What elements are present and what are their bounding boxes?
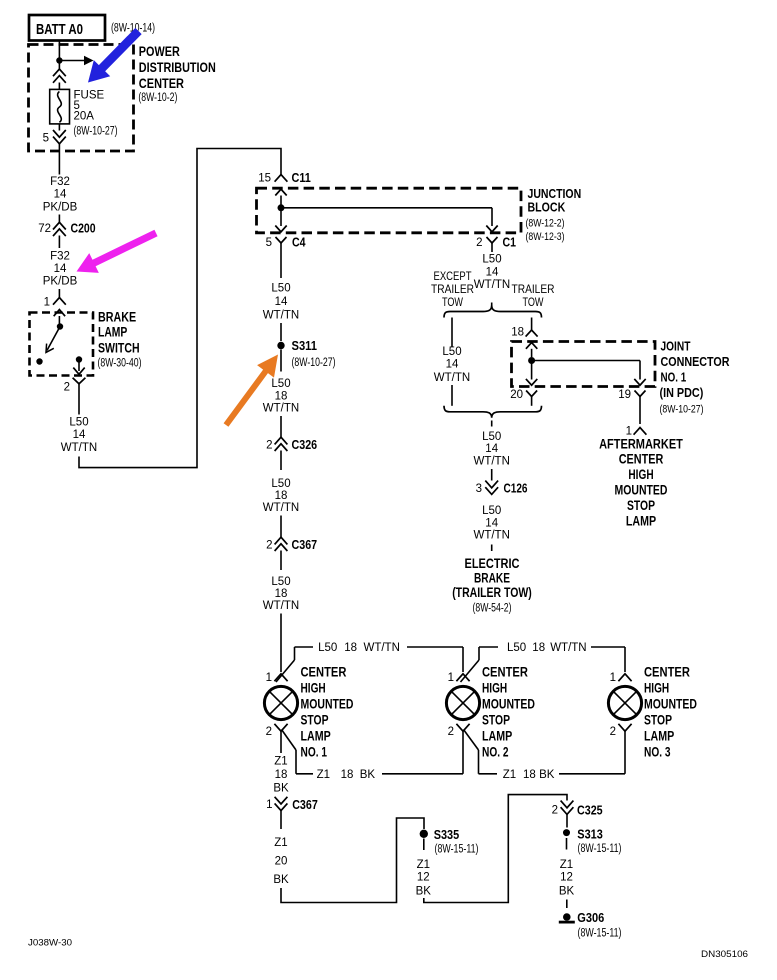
wire Z1 18 BK lamp2 to lamp3	[464, 730, 626, 774]
svg-text:(8W-30-40): (8W-30-40)	[98, 357, 142, 369]
svg-text:2: 2	[266, 539, 272, 551]
svg-text:LAMP: LAMP	[626, 513, 656, 528]
svg-text:STOP: STOP	[627, 498, 655, 513]
svg-text:C126: C126	[504, 481, 528, 496]
svg-text:18: 18	[344, 642, 357, 654]
svg-text:S313: S313	[577, 827, 603, 842]
power distribution center box	[29, 45, 134, 152]
connector chevrons PDC output (down)	[53, 130, 66, 144]
svg-text:BK: BK	[559, 886, 575, 898]
svg-text:PK/DB: PK/DB	[43, 201, 78, 213]
connector C200 pin 72	[38, 221, 95, 237]
switch output wire arrow	[73, 362, 84, 374]
svg-text:14: 14	[275, 296, 288, 308]
svg-text:L50: L50	[271, 282, 290, 294]
svg-text:14: 14	[446, 359, 459, 371]
svg-text:20: 20	[275, 855, 288, 867]
svg-text:WT/TN: WT/TN	[474, 279, 510, 291]
svg-text:WT/TN: WT/TN	[473, 456, 509, 468]
fuse FUSE 5 20A	[50, 89, 70, 124]
fuse value label	[74, 90, 118, 138]
svg-text:NO. 1: NO. 1	[301, 745, 328, 760]
svg-text:L50: L50	[442, 346, 461, 358]
svg-text:WT/TN: WT/TN	[61, 442, 97, 454]
svg-text:1: 1	[44, 297, 50, 309]
svg-text:C4: C4	[292, 235, 306, 250]
wire to splice S311	[280, 323, 282, 341]
wire Z1 18 BK lamp1 to lamp2	[282, 730, 464, 774]
pin 1 brake lamp switch	[44, 297, 66, 309]
svg-text:DISTRIBUTION: DISTRIBUTION	[139, 60, 216, 75]
svg-text:14: 14	[485, 517, 498, 529]
svg-text:3: 3	[476, 483, 482, 495]
svg-text:NO. 3: NO. 3	[644, 745, 671, 760]
junction block label	[526, 187, 582, 243]
joint connector no.1 box	[512, 342, 656, 387]
svg-text:CENTER: CENTER	[301, 665, 347, 680]
svg-text:LAMP: LAMP	[301, 729, 331, 744]
svg-text:MOUNTED: MOUNTED	[482, 697, 535, 712]
reference label (8W-10-14)	[111, 23, 155, 35]
svg-text:2: 2	[64, 382, 70, 394]
brake lamp switch input arrowhead	[54, 310, 65, 317]
pin 18 joint connector	[511, 327, 537, 339]
wire into C200	[58, 215, 60, 223]
svg-text:MOUNTED: MOUNTED	[644, 697, 697, 712]
connector C126 pin 3	[476, 481, 528, 496]
wire connector to fuse	[58, 83, 60, 90]
wire label F32 14 PK/DB (lower)	[43, 251, 78, 288]
svg-text:L50: L50	[271, 576, 290, 588]
wire node to pin 19	[532, 361, 646, 386]
svg-text:CONNECTOR: CONNECTOR	[661, 354, 731, 369]
svg-text:20A: 20A	[74, 111, 95, 123]
wire switch output	[78, 389, 80, 415]
lamp no.1 label	[301, 665, 354, 760]
wire stub above brace	[491, 303, 493, 309]
svg-text:L50: L50	[271, 478, 290, 490]
svg-text:(TRAILER TOW): (TRAILER TOW)	[452, 585, 532, 600]
svg-text:C200: C200	[71, 221, 96, 236]
wire S313 down stub	[566, 838, 568, 850]
label TRAILER TOW	[512, 284, 555, 309]
svg-text:18: 18	[275, 769, 288, 781]
svg-text:J038W-30: J038W-30	[28, 938, 72, 948]
wire label L50 14 WT/TN (below C1)	[474, 254, 510, 291]
svg-text:NO. 1: NO. 1	[661, 370, 687, 385]
svg-text:WT/TN: WT/TN	[473, 530, 509, 542]
connector C325 pin 2	[552, 801, 603, 818]
switch arm	[46, 327, 60, 353]
svg-text:5: 5	[43, 133, 49, 145]
wire label Z1 18 BK (lamp1 drop)	[273, 756, 289, 795]
svg-text:12: 12	[560, 872, 573, 884]
connector chevrons PDC feed (up)	[53, 69, 66, 83]
wire label F32 14 PK/DB (upper)	[43, 176, 78, 213]
wire label Z1 12 BK (below S335)	[416, 859, 432, 898]
svg-text:15: 15	[258, 173, 271, 185]
wire label L50 14 WT/TN (above C126)	[473, 431, 509, 468]
svg-text:2: 2	[610, 726, 616, 738]
svg-text:WT/TN: WT/TN	[263, 600, 299, 612]
diagram id J038W-30	[28, 938, 72, 948]
pin 2 connector C1	[476, 235, 516, 253]
aftermarket lamp label	[599, 436, 683, 528]
wire node to C4	[275, 208, 286, 232]
wire into C367 upper	[280, 516, 282, 538]
svg-text:LAMP: LAMP	[644, 729, 674, 744]
svg-text:NO. 2: NO. 2	[482, 745, 509, 760]
connector C367 pin 2	[266, 537, 317, 552]
svg-text:F32: F32	[50, 176, 70, 188]
svg-text:TOW: TOW	[523, 297, 544, 309]
svg-text:BATT A0: BATT A0	[36, 21, 83, 38]
battery feed BATT A0	[29, 15, 105, 41]
connector C367 pin 1	[266, 797, 318, 812]
svg-text:19: 19	[618, 389, 631, 401]
svg-text:Z1: Z1	[417, 859, 430, 871]
svg-text:L50: L50	[318, 642, 337, 654]
wire label Z1 18 BK (lamp2-lamp3)	[503, 769, 555, 781]
svg-text:14: 14	[486, 267, 499, 279]
svg-text:18: 18	[511, 327, 524, 339]
wire PDC output F32	[58, 144, 60, 175]
junction block box	[257, 188, 522, 233]
svg-text:14: 14	[54, 189, 67, 201]
svg-text:S311: S311	[292, 338, 318, 353]
svg-text:HIGH: HIGH	[628, 467, 653, 482]
svg-text:(8W-12-2): (8W-12-2)	[526, 218, 565, 230]
svg-text:BRAKE: BRAKE	[474, 570, 510, 585]
svg-text:18: 18	[523, 769, 536, 781]
svg-text:TRAILER: TRAILER	[431, 284, 474, 296]
blue callout arrow	[80, 23, 147, 91]
svg-text:S335: S335	[434, 827, 460, 842]
svg-text:2: 2	[552, 805, 558, 817]
svg-text:L50: L50	[482, 505, 501, 517]
svg-text:CENTER: CENTER	[619, 452, 664, 467]
wire C367 down	[280, 551, 282, 571]
switch common contact	[57, 323, 63, 329]
wire C367 down	[280, 811, 282, 829]
svg-text:STOP: STOP	[301, 713, 329, 728]
wire label L50 14 WT/TN (switch output)	[61, 417, 97, 455]
wire to lamp no.1 pin 1	[280, 614, 282, 673]
wire label L50 14 WT/TN (below C4)	[263, 282, 299, 321]
svg-text:18: 18	[275, 490, 288, 502]
svg-text:CENTER: CENTER	[139, 76, 184, 91]
svg-text:WT/TN: WT/TN	[263, 502, 299, 514]
svg-text:Z1: Z1	[503, 769, 516, 781]
svg-text:WT/TN: WT/TN	[434, 372, 470, 384]
svg-text:(8W-10-27): (8W-10-27)	[74, 126, 118, 138]
label EXCEPT TRAILER TOW	[431, 271, 474, 309]
svg-text:LAMP: LAMP	[98, 325, 127, 340]
orange callout arrow	[218, 348, 287, 431]
svg-text:G306: G306	[577, 910, 604, 925]
svg-text:1: 1	[266, 799, 272, 811]
wire pin18 to node	[531, 349, 533, 357]
svg-text:C325: C325	[577, 803, 603, 818]
wire C200 to F32 label	[58, 236, 60, 249]
wire C326 down	[280, 451, 282, 471]
svg-text:Z1: Z1	[274, 756, 287, 768]
wire into C126	[491, 469, 493, 481]
wire left branch (except trailer tow)	[451, 318, 453, 406]
svg-text:(8W-15-11): (8W-15-11)	[578, 843, 622, 855]
brake lamp switch box	[30, 313, 94, 376]
svg-text:BK: BK	[539, 769, 555, 781]
wire S311 down	[280, 350, 282, 372]
switch output contact	[76, 356, 82, 362]
wire node to connector	[58, 61, 60, 70]
pin 2 brake lamp switch	[64, 378, 86, 394]
wire label L50 14 WT/TN (left branch)	[434, 346, 470, 384]
svg-text:2: 2	[476, 237, 482, 249]
svg-text:Z1: Z1	[560, 859, 573, 871]
svg-text:SWITCH: SWITCH	[98, 340, 140, 355]
svg-text:TRAILER: TRAILER	[512, 284, 555, 296]
wire stub below brace	[491, 421, 493, 427]
svg-text:2: 2	[448, 726, 454, 738]
pin 19 joint connector	[618, 389, 645, 424]
svg-text:2: 2	[266, 439, 272, 451]
diagram id DN305106	[701, 949, 748, 959]
svg-text:L50: L50	[271, 378, 290, 390]
wire label Z1 12 BK (below S313)	[559, 859, 575, 898]
svg-text:BK: BK	[273, 783, 289, 795]
svg-text:18: 18	[341, 769, 354, 781]
wire L50 18 WT/TN lamp1 to lamp2	[276, 647, 463, 682]
wire label L50 18 WT/TN (below C326)	[263, 478, 299, 514]
wire label Z1 18 BK (lamp1-lamp2)	[317, 769, 376, 781]
svg-text:L50: L50	[482, 431, 501, 443]
svg-text:(8W-10-27): (8W-10-27)	[292, 357, 336, 369]
svg-text:L50: L50	[507, 642, 526, 654]
pin 20 joint connector	[510, 389, 537, 406]
svg-text:JUNCTION: JUNCTION	[528, 187, 582, 201]
wire label L50 18 WT/TN (lamp1-lamp2)	[318, 642, 400, 654]
lamp no.2 label	[482, 665, 535, 760]
svg-text:WT/TN: WT/TN	[263, 403, 299, 415]
svg-text:HIGH: HIGH	[482, 681, 507, 696]
svg-text:(8W-10-2): (8W-10-2)	[138, 92, 177, 104]
svg-text:ELECTRIC: ELECTRIC	[465, 556, 520, 571]
svg-text:(IN PDC): (IN PDC)	[660, 385, 704, 400]
svg-text:HIGH: HIGH	[644, 681, 669, 696]
connector C326 pin 2	[266, 437, 317, 452]
svg-text:18: 18	[275, 588, 288, 600]
wire to ground G306	[566, 900, 568, 909]
wire S335 down stub	[423, 839, 425, 851]
svg-text:18: 18	[275, 391, 288, 403]
svg-text:2: 2	[266, 726, 272, 738]
svg-text:1: 1	[610, 672, 616, 684]
lamp U3 center high mounted stop lamp no.3	[608, 672, 641, 738]
joint connector label	[660, 339, 731, 416]
lamp no.3 label	[644, 665, 697, 760]
brace split except/trailer tow	[444, 306, 542, 318]
switch open contact	[36, 358, 42, 364]
wire node to pin 20	[526, 361, 537, 386]
svg-text:CENTER: CENTER	[644, 665, 690, 680]
svg-text:STOP: STOP	[644, 713, 672, 728]
svg-text:20: 20	[510, 389, 523, 401]
svg-text:14: 14	[54, 263, 67, 275]
electric brake label	[452, 556, 532, 615]
joint connector node	[528, 357, 535, 364]
wire label Z1 20 BK	[273, 837, 289, 886]
svg-text:JOINT: JOINT	[661, 339, 691, 354]
svg-text:72: 72	[38, 223, 51, 235]
wire label L50 18 WT/TN (below C367)	[263, 576, 299, 612]
pin 5 connector C4	[266, 235, 307, 279]
wire S335 to C325	[424, 795, 567, 903]
svg-text:C367: C367	[292, 797, 318, 812]
power distribution center label	[138, 44, 215, 104]
svg-text:1: 1	[266, 672, 272, 684]
pin 1 aftermarket lamp	[626, 426, 647, 438]
wire label L50 18 WT/TN (below S311)	[263, 378, 299, 415]
svg-text:AFTERMARKET: AFTERMARKET	[599, 436, 683, 451]
pin 5 label	[43, 133, 49, 145]
svg-text:Z1: Z1	[274, 837, 287, 849]
svg-text:LAMP: LAMP	[482, 729, 512, 744]
wire label L50 14 WT/TN (below C126)	[473, 505, 509, 542]
svg-text:MOUNTED: MOUNTED	[615, 482, 668, 497]
joint connector entry arrowhead pin 18	[526, 343, 537, 349]
svg-text:C11: C11	[292, 170, 311, 185]
svg-text:F32: F32	[50, 251, 70, 263]
svg-text:5: 5	[266, 237, 272, 249]
svg-text:WT/TN: WT/TN	[550, 642, 586, 654]
junction block node	[278, 204, 285, 211]
svg-text:BK: BK	[360, 769, 376, 781]
wire right branch to pin 18	[531, 318, 533, 331]
ground G306	[559, 910, 622, 940]
svg-text:C326: C326	[292, 437, 318, 452]
wire to switch contact	[58, 316, 60, 324]
lamp U1 center high mounted stop lamp no.1	[264, 672, 297, 738]
wire switch to junction block	[79, 149, 281, 468]
svg-text:L50: L50	[69, 417, 88, 429]
splice S313	[563, 827, 622, 856]
node junction in PDC	[56, 57, 62, 63]
wire into C326	[280, 416, 282, 437]
svg-text:14: 14	[485, 443, 498, 455]
svg-text:(8W-15-11): (8W-15-11)	[435, 844, 479, 856]
svg-text:TOW: TOW	[442, 297, 463, 309]
svg-text:BK: BK	[416, 886, 432, 898]
svg-text:C1: C1	[503, 235, 517, 250]
svg-text:MOUNTED: MOUNTED	[301, 697, 354, 712]
svg-text:PK/DB: PK/DB	[43, 276, 78, 288]
wire fuse to pin 5	[58, 124, 60, 131]
svg-text:HIGH: HIGH	[301, 681, 326, 696]
svg-text:18: 18	[532, 642, 545, 654]
wire node to C1	[281, 208, 498, 232]
magenta callout arrow	[72, 223, 161, 281]
junction block entry arrowhead C11	[275, 189, 286, 195]
svg-text:CENTER: CENTER	[482, 665, 528, 680]
svg-text:BK: BK	[273, 874, 289, 886]
svg-text:WT/TN: WT/TN	[363, 642, 399, 654]
svg-text:BLOCK: BLOCK	[528, 201, 566, 215]
svg-text:(8W-54-2): (8W-54-2)	[473, 603, 512, 615]
splice S335	[420, 827, 479, 856]
lamp U2 center high mounted stop lamp no.2	[446, 672, 479, 738]
svg-text:DN305106: DN305106	[701, 949, 748, 959]
wire BATT A0 to node	[58, 41, 60, 61]
wire lamp1 pin2 down	[280, 731, 282, 753]
svg-text:(8W-10-27): (8W-10-27)	[660, 404, 704, 416]
svg-text:(8W-12-3): (8W-12-3)	[526, 231, 565, 243]
wire label L50 18 WT/TN (lamp2-lamp3)	[507, 642, 587, 654]
svg-text:Z1: Z1	[317, 769, 330, 781]
wire L50 18 WT/TN lamp2 to lamp3	[461, 647, 626, 682]
svg-text:14: 14	[73, 429, 86, 441]
svg-text:EXCEPT: EXCEPT	[434, 271, 472, 283]
svg-text:(8W-15-11): (8W-15-11)	[578, 928, 622, 940]
feed arrow to other circuits	[59, 56, 93, 65]
svg-text:BRAKE: BRAKE	[98, 310, 136, 325]
wire C367 to S335	[281, 818, 424, 903]
wire stub above electric brake	[491, 545, 493, 552]
svg-text:L50: L50	[482, 254, 501, 266]
brake lamp switch label	[98, 310, 142, 370]
wire C325 to S313	[566, 814, 568, 827]
wire C11 to node	[280, 196, 282, 205]
brace merge trailer tow	[444, 406, 542, 418]
pin 15 connector C11	[258, 170, 311, 185]
svg-text:1: 1	[448, 672, 454, 684]
svg-text:C367: C367	[292, 537, 318, 552]
svg-text:POWER: POWER	[139, 44, 180, 59]
splice S311	[277, 338, 335, 369]
wire to brake lamp switch	[58, 289, 60, 298]
svg-text:STOP: STOP	[482, 713, 510, 728]
svg-text:WT/TN: WT/TN	[263, 309, 299, 321]
svg-text:12: 12	[417, 872, 430, 884]
